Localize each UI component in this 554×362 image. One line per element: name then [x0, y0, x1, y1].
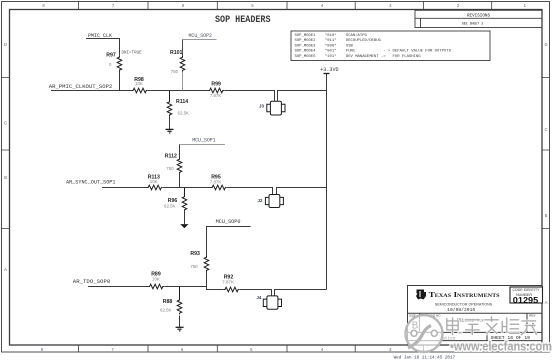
wire +3.3VD rail — [326, 74, 328, 290]
wire bottom rail left — [88, 286, 148, 288]
connector J3 — [259, 101, 285, 115]
svg-text:SOP_MODE5 "101" DEV MANA: SOP_MODE5 "101" DEV MANAGEMENT -> FOR FL… — [295, 54, 422, 59]
svg-text:A: A — [4, 267, 7, 272]
glyph fa — [484, 316, 499, 334]
svg-text:AR_SYNC_OUT_SOP1: AR_SYNC_OUT_SOP1 — [66, 180, 116, 186]
svg-text:750: 750 — [166, 166, 174, 171]
resistor R95 — [210, 175, 227, 190]
wire mid rail center — [163, 187, 211, 189]
svg-text:4: 4 — [321, 3, 324, 8]
wire R114 to ground — [169, 116, 171, 129]
svg-text:5: 5 — [251, 3, 254, 8]
svg-text:R114: R114 — [176, 99, 188, 105]
svg-text:R112: R112 — [165, 153, 177, 159]
svg-text:SOP_MODE1 "010" SCAN/ATP: SOP_MODE1 "010" SCAN/ATPG — [295, 33, 368, 38]
wire mid rail left — [102, 187, 147, 189]
svg-text:MCU_SOP0: MCU_SOP0 — [216, 219, 241, 225]
svg-text:SOP HEADERS: SOP HEADERS — [215, 14, 271, 26]
svg-text:R101: R101 — [170, 50, 183, 56]
zone numbers bottom — [41, 347, 527, 352]
glyph dian — [447, 318, 462, 336]
resistor R101 — [170, 50, 185, 74]
svg-text:7.87K: 7.87K — [210, 179, 222, 184]
svg-text:R88: R88 — [163, 299, 173, 305]
wire J2 pin2 to rail — [277, 188, 327, 195]
svg-text:Wed Jan 18 11:14:45 2017: Wed Jan 18 11:14:45 2017 — [394, 355, 456, 361]
wire R88 to ground — [179, 316, 181, 328]
svg-text:R99: R99 — [211, 81, 221, 87]
wire MCU_SOP0 stub — [207, 227, 251, 257]
svg-text:10/08/2016: 10/08/2016 — [447, 307, 475, 313]
svg-text:10K: 10K — [150, 179, 158, 184]
wire R95 to J2 — [227, 188, 273, 195]
svg-text:Texas Instruments: Texas Instruments — [429, 290, 500, 299]
svg-text:7: 7 — [111, 347, 114, 352]
svg-text:B: B — [545, 213, 548, 218]
svg-text:8: 8 — [41, 347, 44, 352]
svg-text:MCU_SOP1: MCU_SOP1 — [192, 138, 216, 144]
glyph you — [521, 321, 537, 335]
resistor R97 — [106, 52, 142, 72]
TI logo — [416, 290, 426, 300]
svg-text:62.5K: 62.5K — [164, 203, 176, 208]
svg-text:B: B — [4, 175, 7, 180]
svg-text:R97: R97 — [106, 52, 116, 58]
wire main top rail mid — [148, 90, 209, 92]
svg-text:01295: 01295 — [513, 296, 539, 305]
svg-text:0: 0 — [109, 62, 112, 67]
wire PMIC CLK stub — [86, 39, 120, 56]
svg-text:MCU_SOP2: MCU_SOP2 — [189, 33, 213, 39]
svg-text:10K: 10K — [135, 81, 143, 86]
resistor R88 — [160, 287, 182, 315]
watermark CJK characters (electronics fans) — [447, 316, 537, 335]
svg-text:REVISIONS: REVISIONS — [467, 13, 490, 18]
svg-text:+3.3VD: +3.3VD — [320, 67, 338, 73]
svg-text:SEMICONDUCTOR OPERATIONS: SEMICONDUCTOR OPERATIONS — [435, 302, 493, 306]
svg-text:62.5K: 62.5K — [178, 111, 190, 116]
svg-text:750: 750 — [171, 69, 179, 74]
connector J2 — [258, 195, 284, 208]
connector J4 — [257, 295, 282, 309]
svg-text:7: 7 — [112, 3, 115, 8]
wire R93 to bottom rail — [206, 272, 208, 287]
wire R96 to arrow ground — [184, 211, 186, 224]
svg-text:4: 4 — [321, 347, 324, 352]
resistor R112 — [165, 153, 182, 173]
svg-text:7.87K: 7.87K — [210, 93, 222, 98]
svg-text:R93: R93 — [190, 251, 200, 257]
svg-text:C: C — [4, 121, 7, 126]
svg-text:1: 1 — [524, 3, 527, 8]
svg-text:SEE SHEET 2: SEE SHEET 2 — [462, 23, 484, 27]
power bar symbol — [324, 73, 330, 75]
resistor R113 — [147, 174, 163, 190]
wire R92 to J4 — [240, 290, 272, 296]
glyph shao — [502, 318, 519, 334]
svg-text:6: 6 — [182, 3, 185, 8]
svg-text:CODE IDENTITY: CODE IDENTITY — [513, 288, 541, 292]
svg-text:DNI=TRUE: DNI=TRUE — [122, 52, 143, 56]
svg-text:62.5K: 62.5K — [160, 308, 172, 313]
revisions table — [415, 10, 542, 27]
svg-text:7.87K: 7.87K — [222, 280, 234, 285]
svg-text:3: 3 — [389, 3, 392, 8]
zone letters left — [4, 42, 7, 272]
wire J4 pin2 to rail — [275, 290, 327, 296]
svg-text:J4: J4 — [257, 295, 262, 300]
resistor R93 — [190, 251, 208, 272]
svg-text:3: 3 — [389, 347, 392, 352]
svg-text:J3: J3 — [259, 103, 264, 108]
wire MCU_SOP1 stub (gray) — [180, 144, 225, 146]
resistor R96 — [164, 188, 187, 212]
svg-text:REV: REV — [529, 313, 535, 317]
svg-text:D: D — [544, 42, 547, 47]
zone letters right — [544, 42, 547, 305]
resistor R99 — [208, 81, 224, 98]
resistor R92 — [222, 274, 239, 291]
svg-text:10K: 10K — [152, 276, 160, 281]
wire R97 to main — [119, 69, 121, 90]
zone numbers top — [42, 3, 526, 8]
SOP mode note box — [291, 31, 490, 61]
svg-text:5: 5 — [250, 347, 253, 352]
svg-text:AR_PMIC_CLKOUT_SOP2: AR_PMIC_CLKOUT_SOP2 — [49, 84, 113, 90]
wire main top rail left — [51, 90, 132, 92]
wire bottom rail mid + jog — [164, 287, 224, 290]
resistor R98 — [132, 77, 148, 93]
svg-text:2: 2 — [457, 3, 460, 8]
wire MCU_SOP2 stub (gray) — [183, 39, 217, 41]
svg-text:•www.elecfans.com: •www.elecfans.com — [450, 339, 552, 354]
svg-text:SOP_MODE2 "011" DECOUPLE: SOP_MODE2 "011" DECOUPLED/DEBUG — [295, 38, 382, 43]
resistor R114 — [167, 91, 189, 117]
watermark circle logo — [406, 315, 443, 352]
wire R99 to J3 — [224, 91, 274, 102]
wire R101 to main (gray) — [182, 72, 184, 91]
svg-text:A: A — [545, 300, 548, 305]
svg-text:6: 6 — [181, 347, 184, 352]
wire R112 to main — [179, 174, 181, 188]
svg-text:C: C — [544, 127, 547, 132]
svg-text:D: D — [4, 42, 7, 47]
resistor R89 — [148, 272, 164, 289]
svg-text:SOP_MODE4 "001" FUNC: SOP_MODE4 "001" FUNC - > DEFAULT VALUE F… — [295, 49, 452, 54]
ground (bottom) — [176, 327, 184, 331]
svg-text:750: 750 — [190, 264, 198, 269]
wire J3 pin2 to rail — [278, 91, 327, 102]
code identity box — [510, 287, 543, 303]
svg-text:J2: J2 — [258, 198, 263, 203]
ground arrow (middle) — [180, 224, 188, 228]
glyph zi — [465, 320, 480, 335]
svg-text:8: 8 — [42, 3, 45, 8]
ground (top) — [166, 129, 174, 133]
svg-text:SOP_MODE3 "000" USB: SOP_MODE3 "000" USB — [295, 43, 354, 48]
svg-text:AR_TDO_SOP0: AR_TDO_SOP0 — [73, 279, 111, 285]
wire MCU_SOP1 down — [179, 145, 181, 159]
